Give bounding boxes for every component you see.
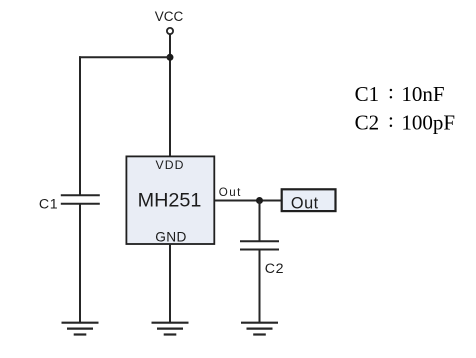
ground (below C2): [241, 323, 278, 335]
wire C1 branch vertical down to C1: [79, 56, 81, 195]
capacitor C2: [240, 241, 279, 249]
wire VCC terminal to VDD pin: [169, 34, 171, 156]
terminal VCC (open circle): [167, 28, 173, 34]
junction dot VCC node: [167, 54, 174, 61]
ground (below IC): [152, 323, 189, 335]
svg-text:GND: GND: [155, 230, 187, 245]
svg-text:C2: C2: [265, 261, 284, 277]
svg-text:Out: Out: [219, 186, 242, 199]
value note C2 : 100pF: [355, 108, 455, 135]
svg-text::: :: [388, 80, 394, 104]
svg-text:C2: C2: [355, 111, 380, 135]
output port box Out: [282, 189, 336, 212]
svg-text:Out: Out: [291, 195, 319, 213]
svg-text::: :: [388, 108, 394, 132]
wire GND pin to ground: [169, 244, 171, 323]
svg-text:10nF: 10nF: [401, 82, 444, 106]
wire Out node down to C2: [259, 201, 261, 242]
wire VCC node to C1 branch (horizontal): [79, 56, 170, 58]
svg-text:MH251: MH251: [138, 189, 202, 211]
svg-text:VCC: VCC: [155, 9, 184, 24]
junction dot Out node: [256, 197, 263, 204]
svg-text:C1: C1: [355, 82, 380, 106]
wire Out pin to output port: [215, 200, 281, 202]
value note C1 : 10nF: [355, 80, 445, 107]
capacitor C1: [61, 195, 100, 203]
svg-text:100pF: 100pF: [401, 111, 455, 135]
svg-text:VDD: VDD: [155, 158, 184, 172]
svg-text:C1: C1: [39, 197, 58, 213]
wire C2 to ground: [259, 250, 261, 323]
wire C1 to ground: [79, 204, 81, 323]
ground (below C1): [62, 323, 99, 335]
IC U1 MH251 (body): [126, 156, 214, 244]
